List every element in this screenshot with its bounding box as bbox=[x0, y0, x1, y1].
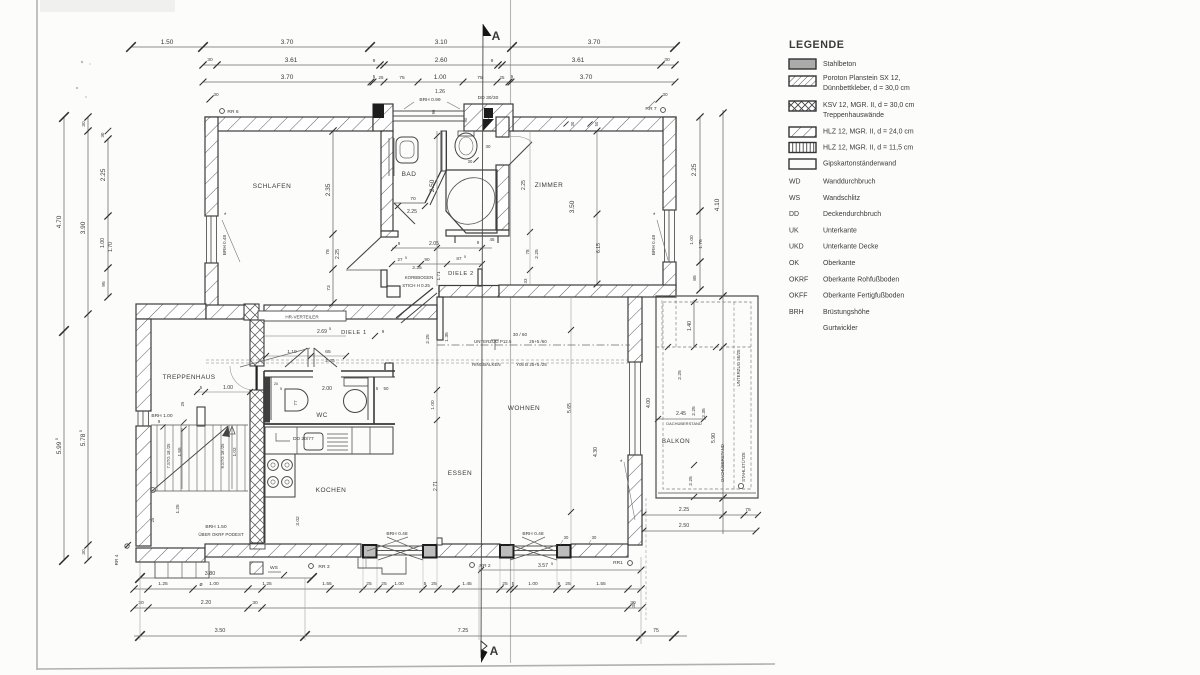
svg-text:Y05 B 25+5 /25: Y05 B 25+5 /25 bbox=[516, 362, 547, 367]
svg-text:2.25: 2.25 bbox=[407, 209, 417, 215]
svg-text:UNTERZUG 50/25: UNTERZUG 50/25 bbox=[736, 349, 741, 387]
svg-text:Poroton Planstein SX 12,: Poroton Planstein SX 12, bbox=[823, 75, 900, 82]
svg-text:30: 30 bbox=[486, 144, 491, 149]
svg-text:WC: WC bbox=[316, 412, 327, 419]
svg-text:5: 5 bbox=[551, 562, 553, 566]
svg-text:1.00: 1.00 bbox=[528, 581, 538, 587]
svg-text:TREPPENHAUS: TREPPENHAUS bbox=[163, 374, 216, 381]
svg-text:STICH H 0.25: STICH H 0.25 bbox=[402, 283, 430, 288]
svg-text:30: 30 bbox=[81, 121, 87, 127]
svg-text:2.25: 2.25 bbox=[521, 180, 527, 190]
svg-text:25: 25 bbox=[502, 581, 508, 587]
svg-text:A: A bbox=[490, 644, 499, 658]
svg-text:BRH 0.48: BRH 0.48 bbox=[222, 234, 227, 255]
svg-text:2.50: 2.50 bbox=[429, 179, 436, 192]
svg-text:30: 30 bbox=[81, 549, 87, 555]
svg-text:75: 75 bbox=[653, 628, 659, 634]
svg-text:UNTERZUG P12.5: UNTERZUG P12.5 bbox=[474, 339, 512, 344]
svg-text:OK: OK bbox=[789, 260, 799, 267]
svg-text:RR1: RR1 bbox=[613, 560, 623, 566]
svg-text:DIELE 1: DIELE 1 bbox=[341, 330, 367, 336]
svg-text:Unterkante: Unterkante bbox=[823, 227, 857, 234]
svg-text:4.70: 4.70 bbox=[56, 215, 63, 228]
svg-text:3.70: 3.70 bbox=[281, 39, 294, 46]
svg-text:2.71: 2.71 bbox=[433, 481, 439, 491]
svg-text:27: 27 bbox=[398, 257, 403, 262]
svg-text:2.25: 2.25 bbox=[691, 163, 698, 176]
svg-text:Gipskartonständerwand: Gipskartonständerwand bbox=[823, 161, 896, 168]
svg-text:Treppenhauswände: Treppenhauswände bbox=[823, 112, 884, 119]
svg-text:5: 5 bbox=[280, 387, 282, 391]
svg-text:3.02: 3.02 bbox=[295, 516, 301, 526]
svg-text:2.25: 2.25 bbox=[425, 334, 431, 344]
svg-text:30: 30 bbox=[564, 535, 569, 540]
svg-text:2.25: 2.25 bbox=[677, 370, 683, 380]
svg-text:90: 90 bbox=[463, 117, 468, 122]
svg-text:25+5 /60: 25+5 /60 bbox=[529, 339, 547, 344]
svg-text:9.STG 18 /25: 9.STG 18 /25 bbox=[220, 443, 225, 469]
svg-text:3.57: 3.57 bbox=[538, 563, 548, 569]
svg-text:OKRF: OKRF bbox=[789, 276, 808, 283]
svg-text:1.55: 1.55 bbox=[177, 447, 182, 456]
svg-text:Gurtwickler: Gurtwickler bbox=[823, 325, 858, 332]
svg-text:30: 30 bbox=[213, 92, 219, 97]
svg-text:1.50: 1.50 bbox=[161, 39, 174, 46]
svg-text:85: 85 bbox=[692, 275, 698, 281]
svg-text:DACHÜBERSTAND: DACHÜBERSTAND bbox=[666, 421, 702, 426]
svg-text:KSV 12, MGR. II, d = 30,0 cm: KSV 12, MGR. II, d = 30,0 cm bbox=[823, 102, 915, 109]
svg-text:87: 87 bbox=[456, 256, 462, 261]
svg-text:WD: WD bbox=[789, 179, 801, 186]
svg-text:30: 30 bbox=[468, 159, 473, 164]
svg-text:4.30: 4.30 bbox=[593, 447, 599, 457]
svg-text:BALKON: BALKON bbox=[662, 438, 690, 445]
svg-text:4.00: 4.00 bbox=[646, 398, 652, 408]
svg-text:30: 30 bbox=[664, 57, 670, 63]
svg-text:2.25: 2.25 bbox=[412, 265, 422, 271]
svg-text:1.25: 1.25 bbox=[175, 504, 180, 513]
svg-text:STAHLSTÜTZE: STAHLSTÜTZE bbox=[741, 452, 746, 482]
svg-text:2.69: 2.69 bbox=[317, 329, 327, 335]
svg-text:95: 95 bbox=[101, 281, 107, 287]
svg-text:2.25: 2.25 bbox=[679, 507, 689, 513]
svg-text:20: 20 bbox=[274, 382, 278, 386]
svg-text:5.90: 5.90 bbox=[711, 433, 717, 443]
svg-text:DD 30/30: DD 30/30 bbox=[478, 95, 499, 101]
svg-text:30: 30 bbox=[630, 600, 636, 606]
svg-text:Wandschlitz: Wandschlitz bbox=[823, 195, 861, 202]
svg-text:5: 5 bbox=[424, 581, 427, 587]
svg-text:Oberkante Fertigfußboden: Oberkante Fertigfußboden bbox=[823, 293, 904, 300]
svg-text:30: 30 bbox=[207, 57, 213, 63]
svg-text:BRH 0.48: BRH 0.48 bbox=[386, 531, 407, 537]
svg-text:25: 25 bbox=[500, 75, 505, 80]
svg-text:25: 25 bbox=[379, 75, 384, 80]
svg-text:75: 75 bbox=[477, 75, 483, 81]
svg-text:30: 30 bbox=[100, 132, 105, 137]
svg-text:45: 45 bbox=[490, 237, 495, 242]
svg-text:1.55: 1.55 bbox=[322, 581, 332, 587]
svg-text:70: 70 bbox=[410, 196, 416, 202]
svg-text:25: 25 bbox=[431, 581, 437, 587]
svg-text:75: 75 bbox=[399, 75, 405, 81]
svg-text:1.25: 1.25 bbox=[262, 581, 272, 587]
svg-text:SCHLAFEN: SCHLAFEN bbox=[253, 183, 292, 190]
svg-text:5.99: 5.99 bbox=[56, 441, 63, 454]
svg-text:4.10: 4.10 bbox=[714, 198, 721, 211]
svg-text:65: 65 bbox=[325, 349, 331, 355]
svg-text:3.70: 3.70 bbox=[588, 39, 601, 46]
svg-text:UKD: UKD bbox=[789, 244, 804, 251]
svg-text:HLZ 12, MGR. II, d = 11,5 cm: HLZ 12, MGR. II, d = 11,5 cm bbox=[823, 145, 913, 152]
svg-text:RINGBALKEN: RINGBALKEN bbox=[472, 362, 501, 367]
svg-text:5.78: 5.78 bbox=[80, 433, 87, 446]
svg-text:DD 20/77: DD 20/77 bbox=[293, 436, 314, 442]
svg-text:1.35: 1.35 bbox=[444, 332, 450, 342]
svg-text:2.00: 2.00 bbox=[322, 386, 332, 392]
svg-text:6.15: 6.15 bbox=[596, 243, 602, 253]
svg-text:Oberkante Rohfußboden: Oberkante Rohfußboden bbox=[823, 276, 899, 283]
svg-text:1.40: 1.40 bbox=[687, 321, 693, 331]
svg-text:ZIMMER: ZIMMER bbox=[535, 182, 564, 189]
svg-text:RR 6: RR 6 bbox=[227, 109, 238, 115]
svg-text:3.61: 3.61 bbox=[572, 57, 585, 64]
svg-text:7.25: 7.25 bbox=[458, 628, 469, 634]
svg-text:BRH 0.99: BRH 0.99 bbox=[419, 97, 440, 103]
svg-text:73: 73 bbox=[326, 285, 332, 291]
svg-text:3.70: 3.70 bbox=[281, 74, 294, 81]
svg-text:2.50: 2.50 bbox=[679, 523, 689, 529]
svg-text:1.71: 1.71 bbox=[436, 271, 441, 280]
svg-text:7.STG 18 /25: 7.STG 18 /25 bbox=[166, 443, 171, 469]
svg-text:25: 25 bbox=[381, 581, 387, 587]
svg-text:25: 25 bbox=[150, 517, 155, 522]
svg-text:50: 50 bbox=[594, 121, 599, 126]
svg-text:HR-VERTEILER: HR-VERTEILER bbox=[285, 315, 319, 320]
svg-text:75: 75 bbox=[745, 507, 751, 513]
svg-text:BRH 1.00: BRH 1.00 bbox=[151, 413, 172, 419]
svg-text:1.00: 1.00 bbox=[100, 238, 106, 248]
svg-text:Stahlbeton: Stahlbeton bbox=[823, 61, 856, 68]
svg-text:1.26: 1.26 bbox=[435, 89, 445, 95]
svg-text:1.76: 1.76 bbox=[698, 239, 704, 249]
svg-text:30 / 60: 30 / 60 bbox=[513, 332, 528, 337]
svg-text:DIELE 2: DIELE 2 bbox=[448, 271, 474, 277]
svg-text:5.65: 5.65 bbox=[567, 403, 573, 413]
svg-text:90: 90 bbox=[431, 109, 436, 114]
svg-text:9: 9 bbox=[373, 58, 376, 64]
svg-text:1.00: 1.00 bbox=[209, 581, 219, 587]
svg-text:33: 33 bbox=[523, 278, 528, 283]
svg-text:BRH: BRH bbox=[789, 309, 804, 316]
svg-text:3.10: 3.10 bbox=[435, 39, 448, 46]
svg-text:90: 90 bbox=[424, 257, 430, 262]
svg-text:BRH 1.50: BRH 1.50 bbox=[205, 524, 226, 530]
svg-text:1.00: 1.00 bbox=[430, 400, 436, 410]
svg-text:78: 78 bbox=[525, 249, 530, 255]
svg-text:25: 25 bbox=[565, 581, 571, 587]
svg-text:2.25: 2.25 bbox=[100, 168, 107, 181]
svg-text:5: 5 bbox=[558, 581, 561, 587]
svg-text:9: 9 bbox=[491, 58, 494, 64]
svg-text:30: 30 bbox=[252, 600, 258, 606]
svg-text:1.02: 1.02 bbox=[232, 447, 237, 456]
svg-text:50: 50 bbox=[384, 386, 389, 391]
svg-text:Unterkante Decke: Unterkante Decke bbox=[823, 244, 879, 251]
svg-text:30: 30 bbox=[592, 535, 597, 540]
svg-text:77: 77 bbox=[293, 400, 298, 406]
svg-text:RR 7: RR 7 bbox=[645, 106, 656, 112]
svg-text:2.20: 2.20 bbox=[201, 600, 211, 606]
svg-text:1.55: 1.55 bbox=[596, 581, 606, 587]
svg-text:2.25: 2.25 bbox=[335, 249, 341, 259]
svg-text:OKFF: OKFF bbox=[789, 293, 807, 300]
svg-text:KORBBOGEN: KORBBOGEN bbox=[405, 275, 434, 280]
svg-text:KOCHEN: KOCHEN bbox=[316, 487, 347, 494]
svg-text:RR 3: RR 3 bbox=[318, 564, 329, 570]
svg-text:78: 78 bbox=[325, 249, 331, 255]
svg-text:BRH 0.48: BRH 0.48 bbox=[522, 531, 543, 537]
svg-text:25: 25 bbox=[180, 401, 185, 406]
svg-text:3.50: 3.50 bbox=[569, 200, 576, 213]
svg-text:HLZ 12, MGR. II, d = 24,0 cm: HLZ 12, MGR. II, d = 24,0 cm bbox=[823, 129, 914, 136]
svg-text:1.70: 1.70 bbox=[108, 242, 114, 252]
svg-text:3.50: 3.50 bbox=[215, 628, 226, 634]
svg-text:1.45: 1.45 bbox=[462, 581, 472, 587]
svg-text:3.61: 3.61 bbox=[285, 57, 298, 64]
svg-text:1.00: 1.00 bbox=[223, 385, 233, 391]
svg-text:Wanddurchbruch: Wanddurchbruch bbox=[823, 179, 876, 186]
svg-text:ESSEN: ESSEN bbox=[448, 470, 472, 477]
svg-text:LEGENDE: LEGENDE bbox=[789, 39, 844, 51]
svg-text:2.25: 2.25 bbox=[534, 249, 540, 259]
svg-text:DACHÜBERSTAND: DACHÜBERSTAND bbox=[720, 444, 725, 482]
svg-text:BRH 0.48: BRH 0.48 bbox=[651, 234, 656, 255]
svg-text:25: 25 bbox=[366, 581, 372, 587]
svg-text:Dünnbettkleber, d = 30,0 cm: Dünnbettkleber, d = 30,0 cm bbox=[823, 85, 910, 92]
svg-text:2.25: 2.25 bbox=[691, 406, 697, 416]
svg-text:ÜBER OKRF PODEST: ÜBER OKRF PODEST bbox=[198, 531, 244, 537]
svg-text:1.00: 1.00 bbox=[434, 74, 447, 81]
svg-text:Oberkante: Oberkante bbox=[823, 260, 855, 267]
svg-text:5: 5 bbox=[329, 327, 331, 331]
svg-text:3.70: 3.70 bbox=[580, 74, 593, 81]
svg-text:3.90: 3.90 bbox=[80, 221, 87, 234]
svg-text:5: 5 bbox=[464, 255, 466, 259]
svg-text:Deckendurchbruch: Deckendurchbruch bbox=[823, 211, 881, 218]
svg-text:Brüstungshöhe: Brüstungshöhe bbox=[823, 309, 870, 316]
svg-text:30: 30 bbox=[662, 92, 668, 97]
svg-text:BAD: BAD bbox=[402, 171, 417, 178]
svg-text:1.25: 1.25 bbox=[158, 581, 168, 587]
svg-text:1.00: 1.00 bbox=[689, 235, 695, 245]
svg-text:WOHNEN: WOHNEN bbox=[508, 405, 540, 412]
svg-text:30: 30 bbox=[266, 385, 270, 389]
svg-text:A: A bbox=[492, 29, 501, 43]
svg-text:RR 4: RR 4 bbox=[114, 554, 119, 565]
svg-text:2.25: 2.25 bbox=[688, 476, 694, 486]
svg-text:1.00: 1.00 bbox=[394, 581, 404, 587]
svg-text:5: 5 bbox=[405, 256, 407, 260]
svg-text:30: 30 bbox=[570, 121, 575, 126]
svg-text:2.60: 2.60 bbox=[435, 57, 448, 64]
svg-text:WS: WS bbox=[789, 195, 801, 202]
svg-text:30: 30 bbox=[138, 600, 144, 606]
svg-text:WS: WS bbox=[270, 565, 279, 571]
svg-text:2.35: 2.35 bbox=[325, 183, 332, 196]
svg-text:3.80: 3.80 bbox=[205, 571, 215, 577]
svg-text:2.45: 2.45 bbox=[676, 411, 686, 417]
svg-text:UK: UK bbox=[789, 227, 799, 234]
svg-text:DD: DD bbox=[789, 211, 799, 218]
svg-text:2.05: 2.05 bbox=[429, 241, 439, 247]
